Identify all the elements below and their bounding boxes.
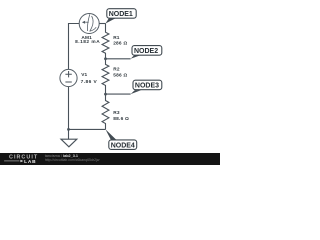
watermark bar	[0, 153, 220, 165]
wire: V1 to ground junction	[68, 87, 70, 130]
node NODE2 flag	[131, 46, 162, 59]
svg-text:7.86 V: 7.86 V	[81, 79, 98, 85]
svg-text:LAB: LAB	[24, 159, 36, 165]
svg-text:R1: R1	[113, 35, 120, 41]
resistor R2	[102, 59, 109, 94]
svg-text:R3: R3	[113, 110, 120, 116]
svg-text:286 Ω: 286 Ω	[113, 41, 127, 47]
node NODE3 flag	[131, 80, 162, 94]
node NODE1 flag	[106, 9, 137, 24]
junction dot ground	[67, 128, 70, 131]
svg-text:V1: V1	[81, 72, 87, 78]
svg-text:NODE2: NODE2	[134, 48, 158, 55]
wire: junction to NODE3	[106, 93, 131, 95]
ground	[61, 129, 77, 146]
node NODE4 flag	[106, 129, 137, 149]
svg-text:http://circuitlab.com/c6kanq65: http://circuitlab.com/c6kanq65dr2jw	[45, 158, 100, 162]
svg-text:586 Ω: 586 Ω	[113, 72, 127, 78]
wire: bottom rail	[69, 128, 106, 130]
wire: junction to NODE2	[106, 58, 131, 60]
svg-text:NODE1: NODE1	[109, 11, 133, 18]
resistor R1	[102, 24, 109, 59]
voltage source V1	[60, 69, 77, 86]
logo CIRCUIT LAB	[4, 155, 38, 165]
svg-text:R2: R2	[113, 66, 120, 72]
resistor R3	[102, 94, 109, 129]
svg-text:NODE4: NODE4	[111, 142, 135, 149]
junction dot node2	[104, 57, 107, 60]
junction dot node3	[104, 93, 107, 96]
svg-text:NODE3: NODE3	[135, 83, 159, 90]
wire: ammeter to NODE1 junction	[99, 23, 105, 25]
wire: left rail top corner to ammeter	[69, 24, 80, 70]
ammeter AM1	[79, 14, 99, 34]
svg-text:88.6 Ω: 88.6 Ω	[113, 116, 129, 122]
svg-text:8.182 mA: 8.182 mA	[75, 39, 100, 45]
